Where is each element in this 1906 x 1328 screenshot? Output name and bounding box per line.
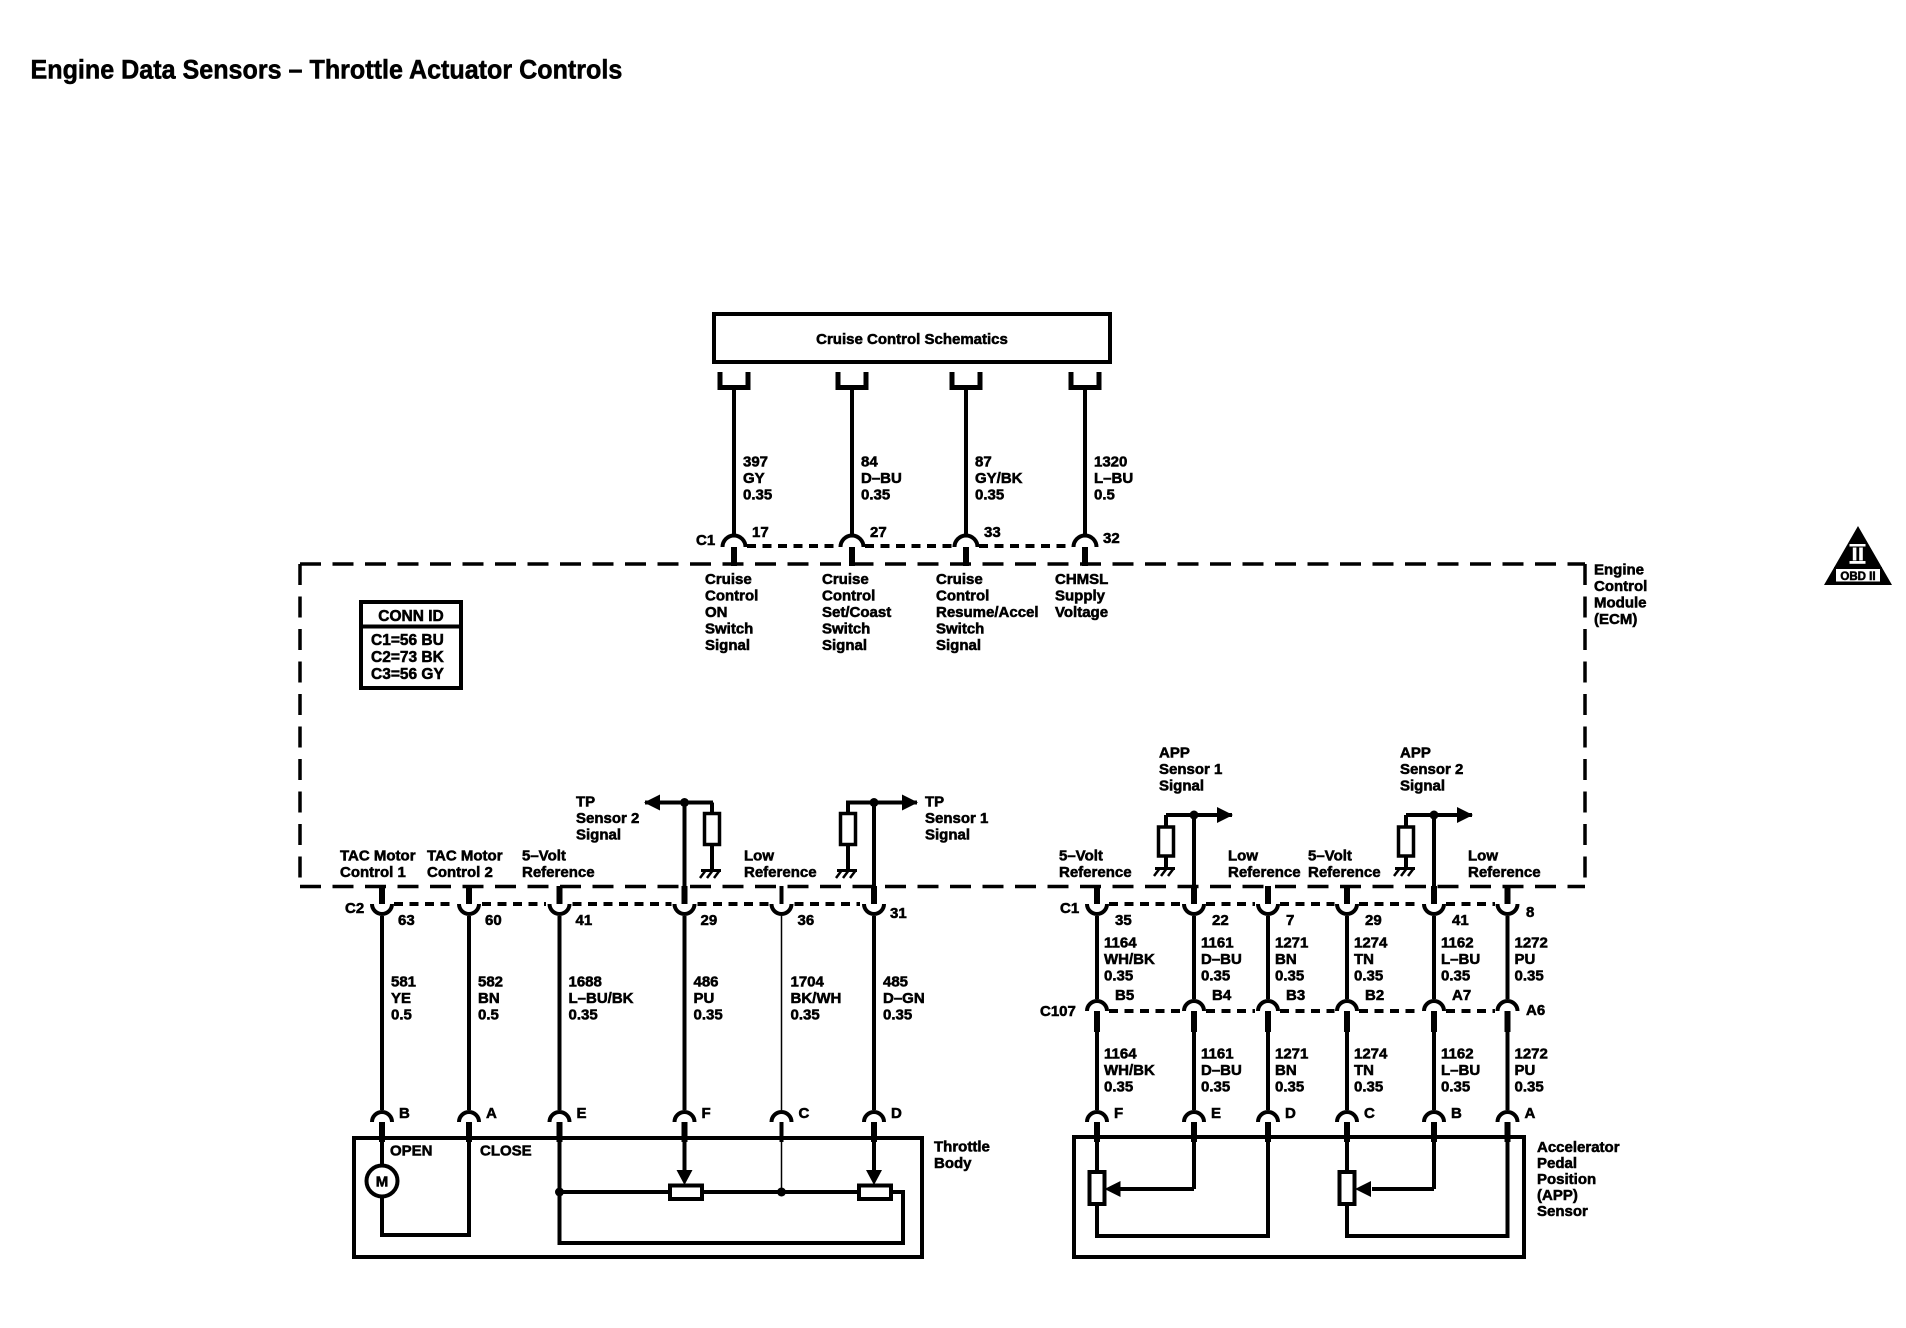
connector C2 pin 29 [675,886,695,914]
svg-text:B5: B5 [1115,987,1134,1004]
svg-text:17: 17 [752,524,769,541]
APP sensor connector pin B [1424,1112,1444,1142]
ground, APP sensor 1 resistor [1154,868,1175,876]
OBD II icon [1824,526,1892,585]
wire 581 YE to throttle body [380,916,384,1110]
wire 582 BN to throttle body [467,916,471,1110]
pull-up resistor, APP sensor 1 [1159,815,1174,867]
wire 1704 BK/WH to throttle body [781,916,783,1110]
wire 1164 WH/BK, C107 to APP sensor [1095,1030,1099,1110]
wire 1271 BN, ECM to C107 [1266,916,1270,999]
svg-text:OPEN: OPEN [390,1142,433,1159]
connector C1 pin 29 [1337,886,1357,914]
svg-text:E: E [1211,1105,1221,1122]
svg-text:C1: C1 [696,532,715,549]
Accelerator Pedal Position sensor box [1074,1137,1524,1257]
svg-text:B: B [1451,1105,1462,1122]
svg-text:63: 63 [398,912,415,929]
wire 1161 D–BU, C107 to APP sensor [1192,1030,1196,1110]
svg-text:F: F [702,1105,711,1122]
connector C1 pin 17 [723,536,746,567]
wire 1274 TN, C107 to APP sensor [1345,1030,1349,1110]
APP sensor connector pin E [1184,1112,1204,1142]
svg-text:OBD II: OBD II [1840,571,1875,583]
svg-text:A7: A7 [1452,987,1471,1004]
connector C1 pin 22 [1184,886,1204,914]
pull-up resistor, TP sensor 1 [841,803,856,870]
box: Cruise Control Schematics [714,314,1110,362]
junction node, TP sensor 1 line / pin 31 wire [870,798,879,807]
svg-text:A: A [486,1105,497,1122]
off-page connector bracket, column 32 [1069,372,1102,390]
svg-text:22: 22 [1212,912,1229,929]
wire 87 GY/BK [964,390,968,536]
APP sensor connector pin A [1498,1112,1518,1142]
svg-text:41: 41 [1452,912,1469,929]
connector C1 pin 41 [1424,886,1444,914]
svg-text:36: 36 [798,912,815,929]
connector C1 pin 8 [1498,886,1518,914]
svg-text:33: 33 [984,524,1001,541]
inline connector C107 pin B3 [1258,1001,1278,1032]
wire: pin E (5V ref) into throttle body [558,1142,562,1194]
off-page connector bracket, column 27 [836,372,869,390]
wire 1161 D–BU, ECM to C107 [1192,916,1196,999]
arrow from pin F onto TP pot 1 [677,1142,693,1185]
ground, TP sensor 2 resistor [700,870,721,878]
wire 397 GY [732,390,736,536]
wire 84 D–BU [850,390,854,536]
svg-text:B4: B4 [1212,987,1232,1004]
junction node pin C / rail [777,1188,786,1197]
wire from TP sensor 2 junction to ECM pin 29 [683,803,687,889]
off-page connector bracket, column 33 [950,372,983,390]
connector C2 pin 60 [459,886,479,914]
wire 485 D–GN to throttle body [872,916,876,1110]
connector C1 pin 32 [1074,536,1097,567]
dotted connector line C1 (right bank) [1109,902,1495,906]
svg-text:C2: C2 [345,900,364,917]
TP pot rail (right) and return loop [558,1192,906,1245]
svg-text:CLOSE: CLOSE [480,1142,532,1159]
wire 1688 L–BU/BK to throttle body [558,916,562,1110]
throttle body connector pin B [372,1112,392,1142]
TP pot rail (middle) [702,1190,859,1194]
svg-text:E: E [577,1105,587,1122]
APP pot 1 element (pin F) [1090,1139,1105,1204]
wire: motor loop to pin A (CLOSE) [380,1142,471,1235]
APP sensor connector pin F [1087,1112,1107,1142]
wire 1274 TN, ECM to C107 [1345,916,1349,999]
svg-text:27: 27 [870,524,887,541]
dotted connector line C2 [394,902,860,906]
inline connector C107 pin B5 [1087,1001,1107,1032]
arrow from pin B onto APP pot 2 [1355,1139,1434,1197]
wire 1271 BN, C107 to APP sensor [1266,1030,1270,1110]
wire 1162 L–BU, C107 to APP sensor [1432,1030,1436,1110]
junction node E / TP pot wiper rail [555,1188,564,1197]
off-page connector bracket, column 17 [718,372,751,390]
connector C1 pin 27 [841,536,864,567]
arrow from pin E onto APP pot 1 [1105,1139,1195,1197]
TP Sensor 1 signal arrow [846,795,918,811]
pull-up resistor, TP sensor 2 [705,803,720,870]
APP pot 2 return to pin A [1345,1139,1510,1238]
svg-text:TAC MotorControl 2: TAC MotorControl 2 [427,848,503,882]
throttle motor M [367,1142,398,1197]
wire 1164 WH/BK, ECM to C107 [1095,916,1099,999]
svg-text:M: M [376,1174,389,1191]
svg-text:29: 29 [1365,912,1382,929]
TP sensor pot rail (left) [560,1190,671,1194]
wire 1272 PU, ECM to C107 [1506,916,1510,999]
wire 486 PU to throttle body [683,916,687,1110]
ground, TP sensor 1 resistor [836,870,857,878]
svg-text:C: C [799,1105,810,1122]
svg-text:32: 32 [1103,530,1120,547]
svg-text:7: 7 [1286,912,1294,929]
inline connector C107 pin B2 [1337,1001,1357,1032]
inline connector C107 pin A6 [1498,1001,1518,1032]
connector C2 pin 31 [864,886,884,914]
APP pot 1 return to pin D [1095,1139,1270,1238]
APP Sensor 1 signal arrow [1166,807,1233,823]
svg-text:D: D [1285,1105,1296,1122]
wire 1320 L–BU [1083,390,1087,536]
dotted connector line C107 [1109,1009,1495,1013]
APP pot 2 element (pin C) [1340,1139,1355,1204]
svg-text:F: F [1114,1105,1123,1122]
APP sensor connector pin D [1258,1112,1278,1142]
wire 1162 L–BU, ECM to C107 [1432,916,1436,999]
wire from TP sensor 1 junction to ECM pin 31 [872,803,876,889]
svg-text:C: C [1364,1105,1375,1122]
TP Sensor 2 signal arrow [644,795,713,811]
thin wire pin C into throttle body [781,1142,783,1192]
svg-text:C1=56 BUC2=73 BKC3=56 GY: C1=56 BUC2=73 BKC3=56 GY [371,632,445,683]
TP sensor 2 potentiometer element [859,1186,891,1200]
connector C1 pin 33 [955,536,978,567]
svg-text:C1: C1 [1060,900,1079,917]
connector C2 pin 41 [550,886,570,914]
dotted connector line C1 (top row) [747,544,1072,548]
svg-text:A6: A6 [1526,1002,1545,1019]
wire 1272 PU, C107 to APP sensor [1506,1030,1510,1110]
svg-text:Engine Data Sensors – Throttle: Engine Data Sensors – Throttle Actuator … [31,54,623,85]
junction node, APP sensor 2 line / pin 41 wire [1430,811,1439,820]
svg-text:CHMSLSupplyVoltage: CHMSLSupplyVoltage [1055,571,1108,621]
svg-text:D: D [891,1105,902,1122]
APP sensor connector pin C [1337,1112,1357,1142]
svg-text:B2: B2 [1365,987,1384,1004]
junction node, TP sensor 2 line / pin 29 wire [680,798,689,807]
svg-text:B: B [399,1105,410,1122]
throttle body connector pin F [675,1112,695,1142]
svg-text:29: 29 [701,912,718,929]
svg-text:31: 31 [890,905,907,922]
ECM module dashed outline [300,564,1585,887]
APP Sensor 2 signal arrow [1406,807,1473,823]
connector C1 pin 7 [1258,886,1278,914]
svg-text:C107: C107 [1040,1003,1076,1020]
throttle body connector pin A [459,1112,479,1142]
wire from APP sensor 2 junction to ECM pin 41 [1432,815,1436,888]
wire from APP sensor 1 junction to ECM pin 22 [1192,815,1196,888]
svg-text:B3: B3 [1286,987,1305,1004]
svg-text:A: A [1525,1105,1536,1122]
throttle body connector pin E [550,1112,570,1142]
svg-text:Cruise Control Schematics: Cruise Control Schematics [816,331,1008,348]
svg-text:35: 35 [1115,912,1132,929]
throttle body connector pin C [772,1112,792,1142]
throttle body connector pin D [864,1112,884,1142]
title: Engine Data Sensors - Throttle Actuator Controls [31,54,623,85]
connector C1 pin 35 [1087,886,1107,914]
svg-text:41: 41 [576,912,593,929]
svg-text:TAC MotorControl 1: TAC MotorControl 1 [340,848,416,882]
connector C2 pin 36 [772,886,792,914]
Throttle Body box [354,1138,922,1257]
svg-text:CONN ID: CONN ID [378,608,443,625]
ground, APP sensor 2 resistor [1394,868,1415,876]
junction node, APP sensor 1 line / pin 22 wire [1190,811,1199,820]
inline connector C107 pin A7 [1424,1001,1444,1032]
pull-up resistor, APP sensor 2 [1399,815,1414,867]
connector C2 pin 63 [372,886,392,914]
svg-text:8: 8 [1526,904,1534,921]
inline connector C107 pin B4 [1184,1001,1204,1032]
svg-text:60: 60 [485,912,502,929]
CONN ID table [361,602,461,688]
arrow from pin D onto TP pot 2 [866,1142,882,1185]
TP sensor 1 potentiometer element [670,1186,702,1200]
